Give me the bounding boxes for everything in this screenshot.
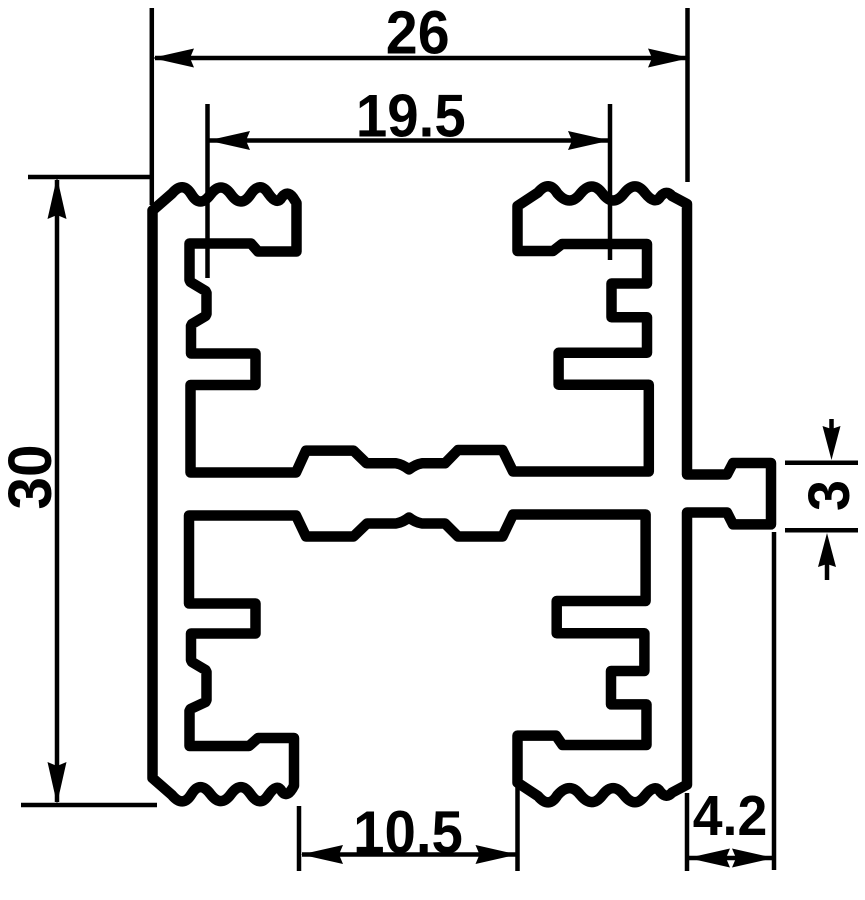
svg-text:3: 3 xyxy=(798,480,862,511)
svg-text:4.2: 4.2 xyxy=(693,783,767,847)
svg-text:30: 30 xyxy=(0,444,64,509)
svg-text:26: 26 xyxy=(386,0,450,67)
svg-text:10.5: 10.5 xyxy=(353,799,463,866)
svg-text:19.5: 19.5 xyxy=(356,83,466,150)
